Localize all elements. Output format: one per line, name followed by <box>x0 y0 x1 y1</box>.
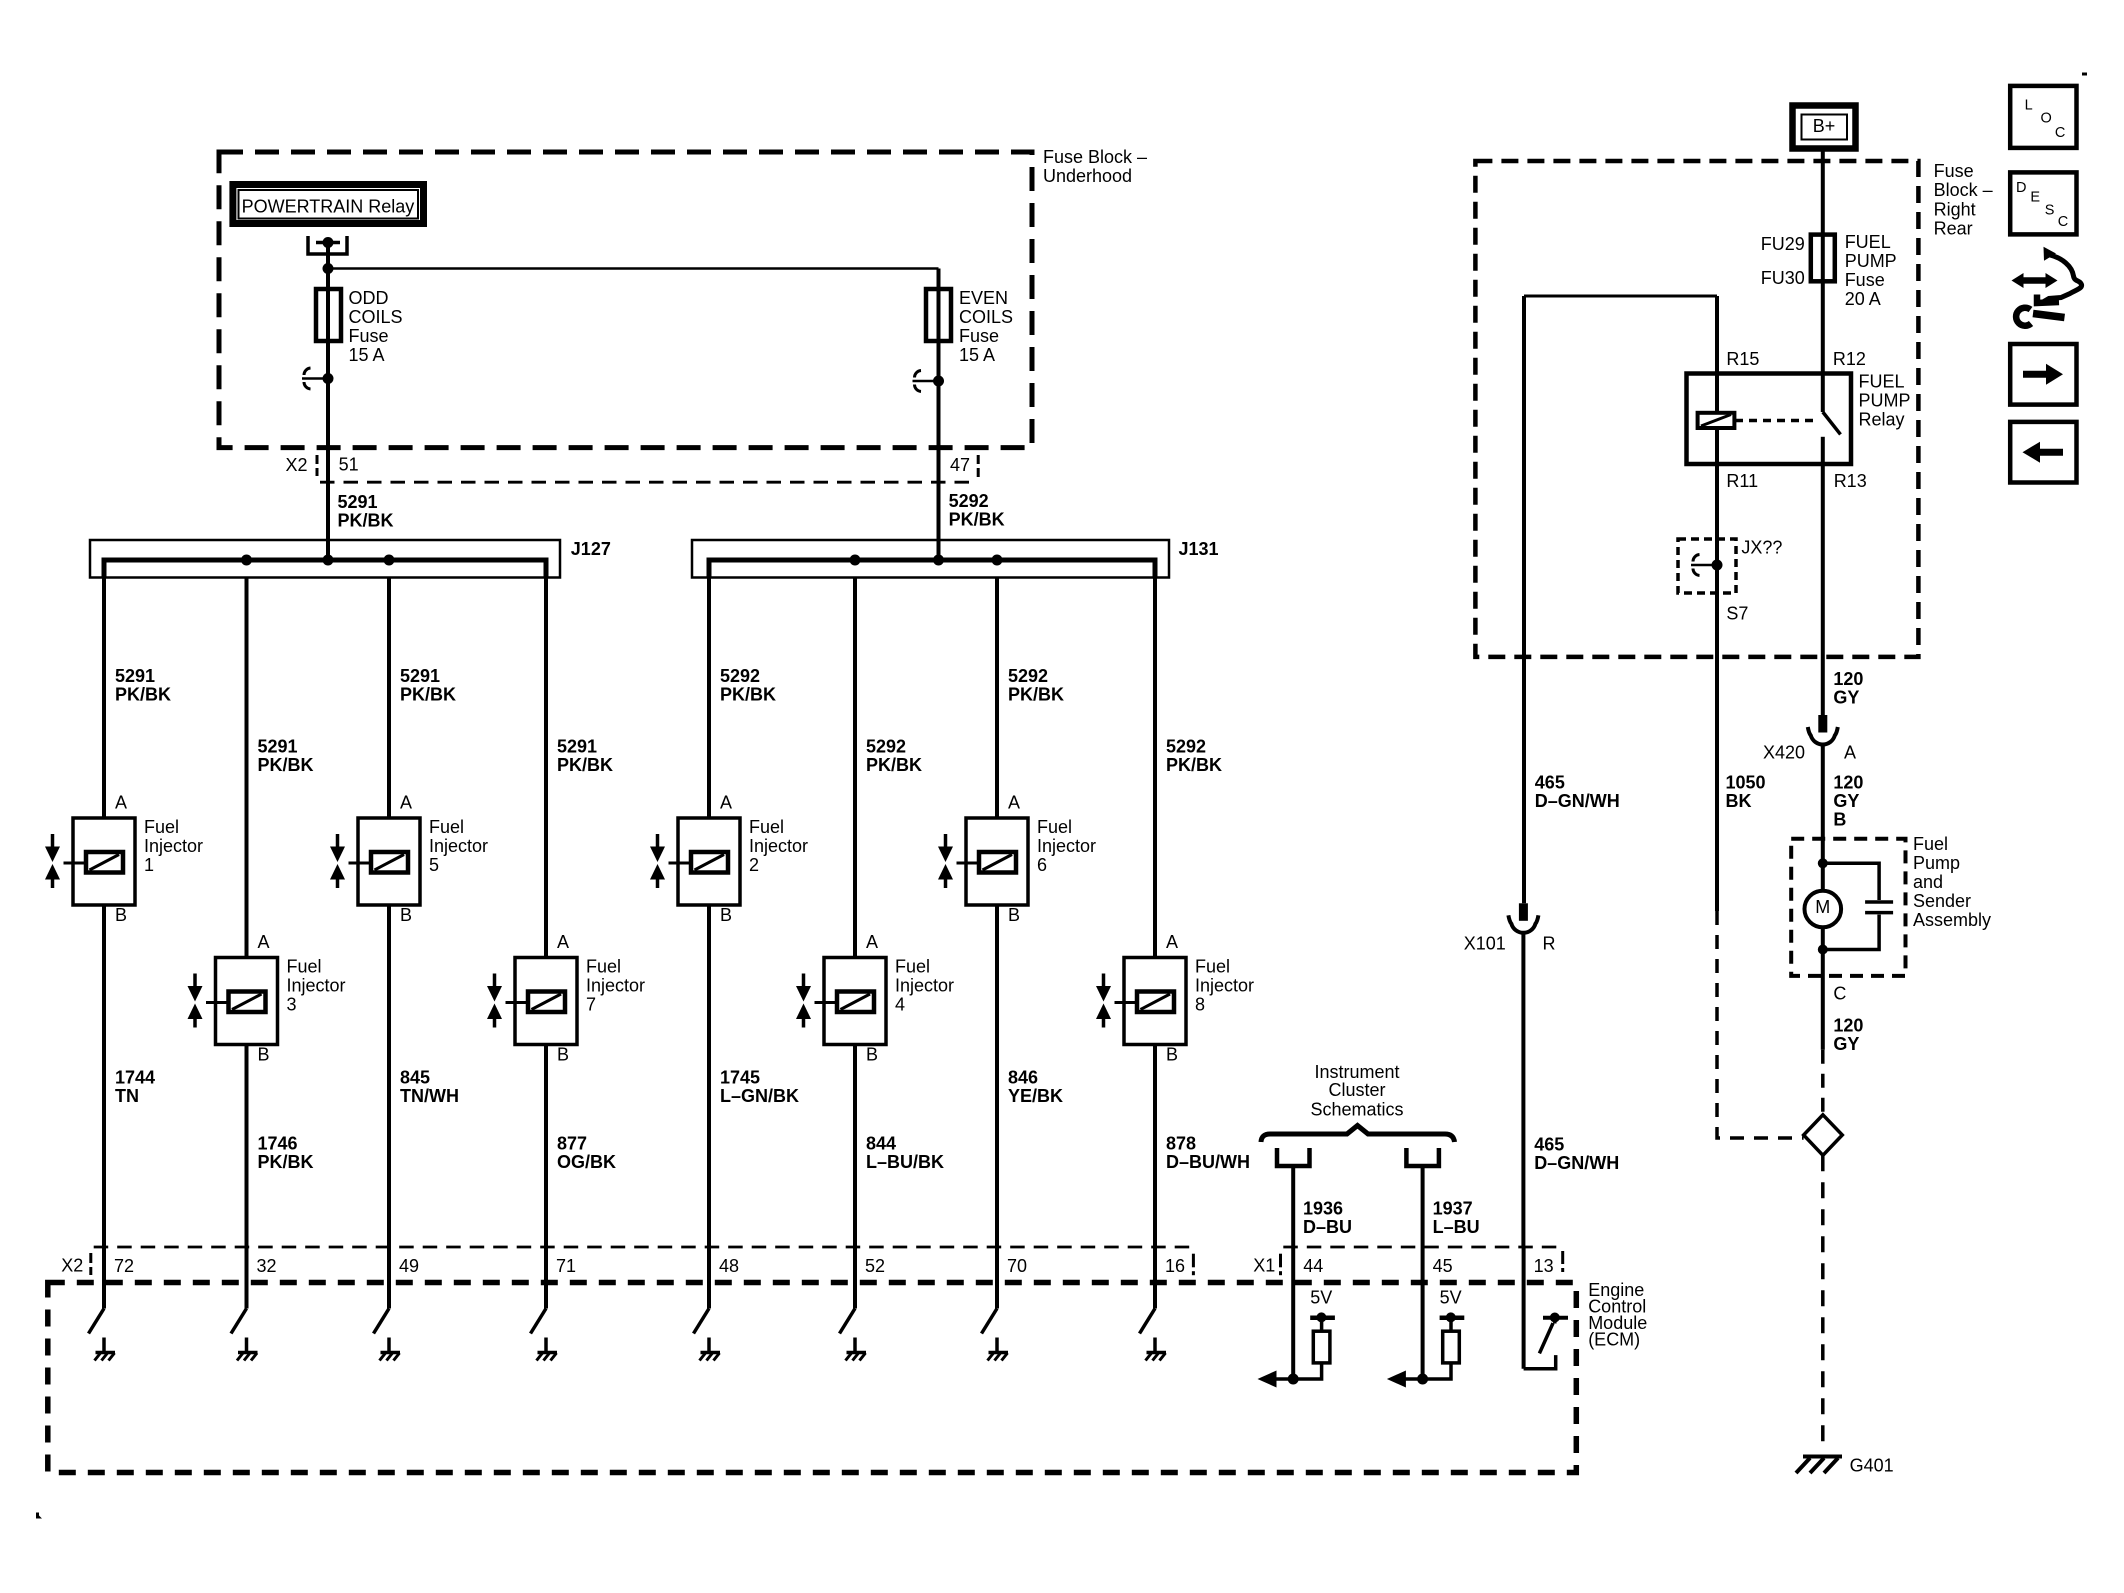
icon arrow left <box>2010 422 2076 483</box>
svg-text:1937: 1937 <box>1433 1198 1473 1218</box>
wire from EVEN fuse to connector <box>937 341 941 381</box>
svg-text:Fuel: Fuel <box>749 817 784 837</box>
ECM low-side driver switch pin at x=546 <box>531 1247 547 1353</box>
stray print mark <box>36 1513 42 1519</box>
svg-text:44: 44 <box>1303 1256 1323 1276</box>
wire circuit 5291 PK/BK to injector 3 <box>245 578 249 958</box>
svg-text:G401: G401 <box>1850 1455 1894 1475</box>
svg-text:B: B <box>115 905 127 925</box>
svg-text:Injector: Injector <box>287 976 346 996</box>
svg-text:X1: X1 <box>1253 1255 1275 1275</box>
fuel injector 7 <box>487 932 645 1064</box>
fuse FUEL PUMP 20A FU29/FU30 <box>1761 232 1897 309</box>
wire circuit 5291 PK/BK to injector 7 <box>544 578 548 958</box>
svg-text:ODD: ODD <box>349 288 389 308</box>
ground G401 <box>1796 1457 1842 1474</box>
svg-text:PK/BK: PK/BK <box>115 684 171 704</box>
wire fuse to relay R12 <box>1821 281 1825 412</box>
wire circuit 845 TN/WH injector 5 to ECM <box>387 905 391 1247</box>
svg-text:X2: X2 <box>286 455 308 475</box>
svg-text:Fuel: Fuel <box>1195 957 1230 977</box>
ECM low-side driver switch pin at x=389 <box>374 1247 390 1353</box>
svg-text:Assembly: Assembly <box>1913 910 1991 930</box>
junction connector JX?? dashed box <box>1678 539 1736 593</box>
wire circuit 878 D–BU/WH injector 8 to ECM <box>1153 1045 1157 1248</box>
svg-text:844: 844 <box>866 1134 896 1154</box>
svg-text:X101: X101 <box>1464 934 1506 954</box>
svg-text:A: A <box>1844 743 1856 763</box>
svg-text:Relay: Relay <box>1859 410 1905 430</box>
ECM relay driver switch pin 13 <box>1524 1247 1568 1369</box>
wire pump C terminal <box>1821 950 1825 1050</box>
icon LOC <box>2010 86 2076 148</box>
wire circuit 5292 PK/BK to injector 6 <box>995 578 999 819</box>
svg-text:47: 47 <box>950 455 970 475</box>
svg-text:PK/BK: PK/BK <box>400 684 456 704</box>
wire 5291 PK/BK feed to J127 <box>326 379 330 561</box>
svg-text:5: 5 <box>429 855 439 875</box>
svg-text:FUEL: FUEL <box>1859 372 1905 392</box>
svg-text:PK/BK: PK/BK <box>338 511 394 531</box>
svg-text:FUEL: FUEL <box>1845 232 1891 252</box>
fuse block right rear dashed box <box>1475 161 1918 657</box>
engine control module ECM dashed box <box>48 1283 1577 1473</box>
svg-text:D–GN/WH: D–GN/WH <box>1535 791 1620 811</box>
svg-text:5291: 5291 <box>115 666 155 686</box>
svg-text:465: 465 <box>1534 1135 1564 1155</box>
ground symbol at x=246.5 <box>237 1353 258 1361</box>
connector X420 <box>1763 715 1856 763</box>
connector X101 <box>1464 903 1556 953</box>
svg-text:5292: 5292 <box>949 491 989 511</box>
svg-text:Injector: Injector <box>429 836 488 856</box>
svg-text:D–BU: D–BU <box>1303 1217 1352 1237</box>
svg-text:TN/WH: TN/WH <box>400 1086 459 1106</box>
svg-text:Injector: Injector <box>586 976 645 996</box>
svg-text:15 A: 15 A <box>349 345 385 365</box>
svg-text:Fuel: Fuel <box>1913 834 1948 854</box>
svg-text:B: B <box>557 1045 569 1065</box>
svg-text:Pump: Pump <box>1913 853 1960 873</box>
fuse EVEN COILS 15A <box>926 288 1013 365</box>
svg-text:5291: 5291 <box>258 737 298 757</box>
ECM low-side driver switch pin at x=1155 <box>1140 1247 1156 1353</box>
svg-text:49: 49 <box>399 1256 419 1276</box>
svg-text:A: A <box>866 932 878 952</box>
svg-text:Fuse: Fuse <box>349 326 389 346</box>
svg-text:Block –: Block – <box>1934 180 1993 200</box>
svg-text:Fuse Block –: Fuse Block – <box>1043 147 1147 167</box>
svg-text:1050: 1050 <box>1726 773 1766 793</box>
svg-text:Injector: Injector <box>749 836 808 856</box>
svg-text:5V: 5V <box>1440 1288 1462 1308</box>
svg-text:1746: 1746 <box>258 1134 298 1154</box>
ground symbol at x=1155 <box>1146 1353 1167 1361</box>
svg-text:5292: 5292 <box>1166 737 1206 757</box>
wire circuit 844 L–BU/BK injector 4 to ECM <box>853 1045 857 1248</box>
svg-text:Injector: Injector <box>144 836 203 856</box>
svg-text:FU30: FU30 <box>1761 268 1805 288</box>
wire circuit 1744 TN injector 1 to ECM <box>102 905 106 1247</box>
svg-text:Cluster: Cluster <box>1328 1080 1385 1100</box>
fuel pump and sender assembly dashed box <box>1791 839 1905 976</box>
svg-text:B: B <box>866 1045 878 1065</box>
svg-text:20 A: 20 A <box>1845 289 1881 309</box>
svg-text:45: 45 <box>1433 1256 1453 1276</box>
svg-text:and: and <box>1913 872 1943 892</box>
svg-text:J127: J127 <box>571 539 611 559</box>
fuel injector 1 <box>45 793 203 926</box>
svg-text:72: 72 <box>114 1256 134 1276</box>
svg-text:C: C <box>2055 125 2065 141</box>
svg-text:Fuel: Fuel <box>1037 817 1072 837</box>
svg-text:Rear: Rear <box>1934 219 1973 239</box>
svg-text:B: B <box>1833 810 1846 830</box>
pull-up resistor network pin 45 <box>1387 1247 1464 1388</box>
fuse output terminal ODD <box>302 377 328 380</box>
wire from ODD fuse to connector <box>326 341 330 379</box>
svg-text:51: 51 <box>339 455 359 475</box>
svg-text:JX??: JX?? <box>1741 538 1782 558</box>
fuel injector 5 <box>330 793 488 926</box>
svg-text:PK/BK: PK/BK <box>1008 684 1064 704</box>
icon DESC <box>2010 172 2076 234</box>
page mark <box>2082 73 2087 76</box>
svg-text:Injector: Injector <box>895 976 954 996</box>
ECM low-side driver switch pin at x=246.5 <box>231 1247 247 1353</box>
svg-text:2: 2 <box>749 855 759 875</box>
svg-text:Injector: Injector <box>1195 976 1254 996</box>
svg-text:A: A <box>720 793 732 813</box>
ground symbol at x=709 <box>700 1353 721 1361</box>
svg-text:Fuse: Fuse <box>1845 270 1885 290</box>
connector row X1 at ECM <box>1253 1247 1562 1275</box>
svg-text:B: B <box>1166 1045 1178 1065</box>
wire 5292 PK/BK feed to J131 <box>937 381 941 560</box>
svg-text:1: 1 <box>144 855 154 875</box>
wire circuit 1746 PK/BK injector 3 to ECM <box>245 1045 249 1248</box>
fuel pump motor M <box>1805 858 1842 954</box>
svg-text:52: 52 <box>865 1256 885 1276</box>
svg-text:Underhood: Underhood <box>1043 166 1132 186</box>
svg-text:Fuse: Fuse <box>1934 161 1974 181</box>
svg-text:A: A <box>1008 793 1020 813</box>
wire circuit 5292 PK/BK to injector 2 <box>707 578 711 819</box>
svg-text:845: 845 <box>400 1068 430 1088</box>
svg-text:X420: X420 <box>1763 743 1805 763</box>
svg-text:S: S <box>2045 203 2055 219</box>
svg-text:D–GN/WH: D–GN/WH <box>1534 1153 1619 1173</box>
ECM low-side driver switch pin at x=997 <box>982 1247 998 1353</box>
svg-text:Injector: Injector <box>1037 836 1096 856</box>
svg-text:O: O <box>2041 110 2052 126</box>
B+ power symbol <box>1793 106 1856 149</box>
instrument cluster connector 1936 <box>1277 1148 1310 1247</box>
svg-text:PUMP: PUMP <box>1845 251 1897 271</box>
svg-text:4: 4 <box>895 995 905 1015</box>
svg-text:R13: R13 <box>1834 471 1867 491</box>
svg-text:877: 877 <box>557 1134 587 1154</box>
ECM low-side driver switch pin at x=104 <box>89 1247 105 1353</box>
svg-text:L–GN/BK: L–GN/BK <box>720 1086 799 1106</box>
svg-text:846: 846 <box>1008 1068 1038 1088</box>
svg-text:B+: B+ <box>1813 116 1836 136</box>
svg-text:13: 13 <box>1534 1256 1554 1276</box>
fuel injector 2 <box>650 793 808 926</box>
ground symbol at x=104 <box>95 1353 116 1361</box>
svg-text:5291: 5291 <box>400 666 440 686</box>
svg-text:8: 8 <box>1195 995 1205 1015</box>
svg-text:L–BU: L–BU <box>1433 1217 1480 1237</box>
wire circuit 5291 PK/BK to injector 1 <box>102 578 106 819</box>
svg-text:Fuel: Fuel <box>586 957 621 977</box>
svg-text:71: 71 <box>556 1256 576 1276</box>
curly brace <box>1261 1126 1455 1143</box>
svg-text:D–BU/WH: D–BU/WH <box>1166 1152 1250 1172</box>
svg-text:EVEN: EVEN <box>959 288 1008 308</box>
svg-text:15 A: 15 A <box>959 345 995 365</box>
wire circuit 846 YE/BK injector 6 to ECM <box>995 905 999 1247</box>
connector X2 row under fuse block <box>286 455 979 483</box>
svg-text:5292: 5292 <box>720 666 760 686</box>
svg-text:R: R <box>1543 934 1556 954</box>
fuel injector 8 <box>1096 932 1254 1064</box>
svg-text:Fuel: Fuel <box>287 957 322 977</box>
svg-text:J131: J131 <box>1179 539 1219 559</box>
svg-text:PK/BK: PK/BK <box>258 755 314 775</box>
wire circuit 5292 PK/BK to injector 4 <box>853 578 857 958</box>
wire circuit 5291 PK/BK to injector 5 <box>387 578 391 819</box>
svg-text:6: 6 <box>1037 855 1047 875</box>
instrument cluster connector 1937 <box>1406 1148 1439 1247</box>
dashed wire diamond to G401 <box>1821 1155 1825 1452</box>
fuel injector 6 <box>938 793 1096 926</box>
wire 120 GY to fuel pump <box>1821 745 1825 863</box>
wire from powertrain relay to fuses <box>323 243 939 291</box>
fuse ODD COILS 15A <box>316 288 403 365</box>
dashed wire 1050 BK to splice diamond <box>1717 911 1804 1138</box>
connector row X2 at ECM <box>61 1247 1193 1276</box>
svg-text:5292: 5292 <box>1008 666 1048 686</box>
svg-text:POWERTRAIN Relay: POWERTRAIN Relay <box>242 197 415 217</box>
svg-text:C: C <box>2058 214 2068 230</box>
splice pack J127 <box>90 540 560 578</box>
svg-text:GY: GY <box>1833 791 1859 811</box>
svg-text:70: 70 <box>1007 1256 1027 1276</box>
svg-text:A: A <box>400 793 412 813</box>
svg-text:48: 48 <box>719 1256 739 1276</box>
fuel injector 3 <box>188 932 346 1064</box>
svg-text:B: B <box>1008 905 1020 925</box>
ground symbol at x=546 <box>537 1353 558 1361</box>
svg-text:3: 3 <box>287 995 297 1015</box>
svg-text:(ECM): (ECM) <box>1588 1330 1640 1350</box>
svg-text:PK/BK: PK/BK <box>258 1152 314 1172</box>
svg-text:S7: S7 <box>1726 603 1748 623</box>
svg-text:PK/BK: PK/BK <box>720 684 776 704</box>
svg-text:5291: 5291 <box>557 737 597 757</box>
svg-text:32: 32 <box>257 1256 277 1276</box>
svg-text:PK/BK: PK/BK <box>1166 755 1222 775</box>
svg-text:A: A <box>557 932 569 952</box>
svg-text:FU29: FU29 <box>1761 234 1805 254</box>
svg-text:1745: 1745 <box>720 1068 760 1088</box>
svg-text:878: 878 <box>1166 1134 1196 1154</box>
svg-text:GY: GY <box>1833 687 1859 707</box>
splice diamond <box>1804 1115 1843 1156</box>
svg-text:L: L <box>2025 97 2033 113</box>
svg-text:PUMP: PUMP <box>1859 391 1911 411</box>
ECM low-side driver switch pin at x=709 <box>694 1247 710 1353</box>
ground symbol at x=855 <box>846 1353 867 1361</box>
svg-text:PK/BK: PK/BK <box>866 755 922 775</box>
svg-text:A: A <box>1166 932 1178 952</box>
wire circuit 1745 L–GN/BK injector 2 to ECM <box>707 905 711 1247</box>
svg-text:Fuel: Fuel <box>895 957 930 977</box>
wire relay R11 to junction JX <box>1715 464 1719 539</box>
svg-text:Sender: Sender <box>1913 891 1971 911</box>
svg-text:R11: R11 <box>1726 471 1758 491</box>
ECM low-side driver switch pin at x=855 <box>840 1247 856 1353</box>
wire B+ to fuel pump fuse <box>1821 148 1825 235</box>
svg-text:A: A <box>258 932 270 952</box>
svg-text:Schematics: Schematics <box>1310 1100 1403 1120</box>
ground symbol at x=997 <box>988 1353 1009 1361</box>
label Instrument Cluster Schematics <box>1310 1062 1403 1120</box>
svg-text:E: E <box>2030 190 2040 206</box>
svg-text:16: 16 <box>1165 1256 1185 1276</box>
svg-text:TN: TN <box>115 1086 139 1106</box>
svg-text:1744: 1744 <box>115 1068 155 1088</box>
svg-text:Right: Right <box>1934 199 1976 219</box>
svg-text:GY: GY <box>1833 1034 1859 1054</box>
splice pack J131 <box>692 540 1169 578</box>
svg-text:COILS: COILS <box>959 307 1013 327</box>
svg-text:L–BU/BK: L–BU/BK <box>866 1152 944 1172</box>
svg-text:5291: 5291 <box>338 492 378 512</box>
svg-text:B: B <box>720 905 732 925</box>
svg-text:R12: R12 <box>1833 349 1866 369</box>
svg-text:X2: X2 <box>61 1256 83 1276</box>
svg-text:Fuel: Fuel <box>429 817 464 837</box>
svg-text:Instrument: Instrument <box>1314 1062 1399 1082</box>
svg-text:B: B <box>258 1045 270 1065</box>
icon arrow right <box>2010 344 2076 405</box>
svg-text:COILS: COILS <box>349 307 403 327</box>
svg-text:120: 120 <box>1833 1015 1863 1035</box>
wire 1050 BK below S7 <box>1715 593 1719 911</box>
svg-text:5292: 5292 <box>866 737 906 757</box>
svg-text:120: 120 <box>1833 669 1863 689</box>
powertrain relay contact bracket <box>308 236 347 254</box>
wire circuit 877 OG/BK injector 7 to ECM <box>544 1045 548 1248</box>
fuse block underhood dashed box <box>219 152 1032 448</box>
svg-text:465: 465 <box>1535 773 1565 793</box>
svg-text:A: A <box>115 793 127 813</box>
svg-text:YE/BK: YE/BK <box>1008 1086 1063 1106</box>
wire circuit 5292 PK/BK to injector 8 <box>1153 578 1157 958</box>
fuel injector 4 <box>796 932 954 1064</box>
svg-text:D: D <box>2016 180 2026 196</box>
svg-text:Fuse: Fuse <box>959 326 999 346</box>
svg-text:C: C <box>1833 984 1846 1004</box>
wire relay R13 down to X420 <box>1821 464 1825 715</box>
svg-text:R15: R15 <box>1726 349 1759 369</box>
fuse output terminal EVEN <box>913 380 939 383</box>
svg-text:PK/BK: PK/BK <box>557 755 613 775</box>
svg-text:120: 120 <box>1833 773 1863 793</box>
svg-text:1936: 1936 <box>1303 1198 1343 1218</box>
dashed wire to splice diamond <box>1821 1050 1825 1115</box>
svg-text:M: M <box>1815 897 1830 917</box>
wire 465 D-GN/WH to ECM pin 13 <box>1521 933 1525 1247</box>
POWERTRAIN Relay box <box>233 185 424 224</box>
svg-text:7: 7 <box>586 995 596 1015</box>
svg-text:B: B <box>400 905 412 925</box>
svg-text:5V: 5V <box>1310 1288 1332 1308</box>
wire ECM pin13 circuit to relay coil R15 <box>1524 296 1717 903</box>
icon harness routing wrench <box>2012 247 2082 326</box>
pull-up resistor network pin 44 <box>1258 1247 1335 1388</box>
svg-text:BK: BK <box>1726 791 1752 811</box>
svg-text:PK/BK: PK/BK <box>949 509 1005 529</box>
fuel sender element <box>1823 863 1893 949</box>
svg-text:Fuel: Fuel <box>144 817 179 837</box>
ground symbol at x=389 <box>380 1353 401 1361</box>
svg-text:OG/BK: OG/BK <box>557 1152 616 1172</box>
fuel pump relay <box>1687 349 1911 491</box>
